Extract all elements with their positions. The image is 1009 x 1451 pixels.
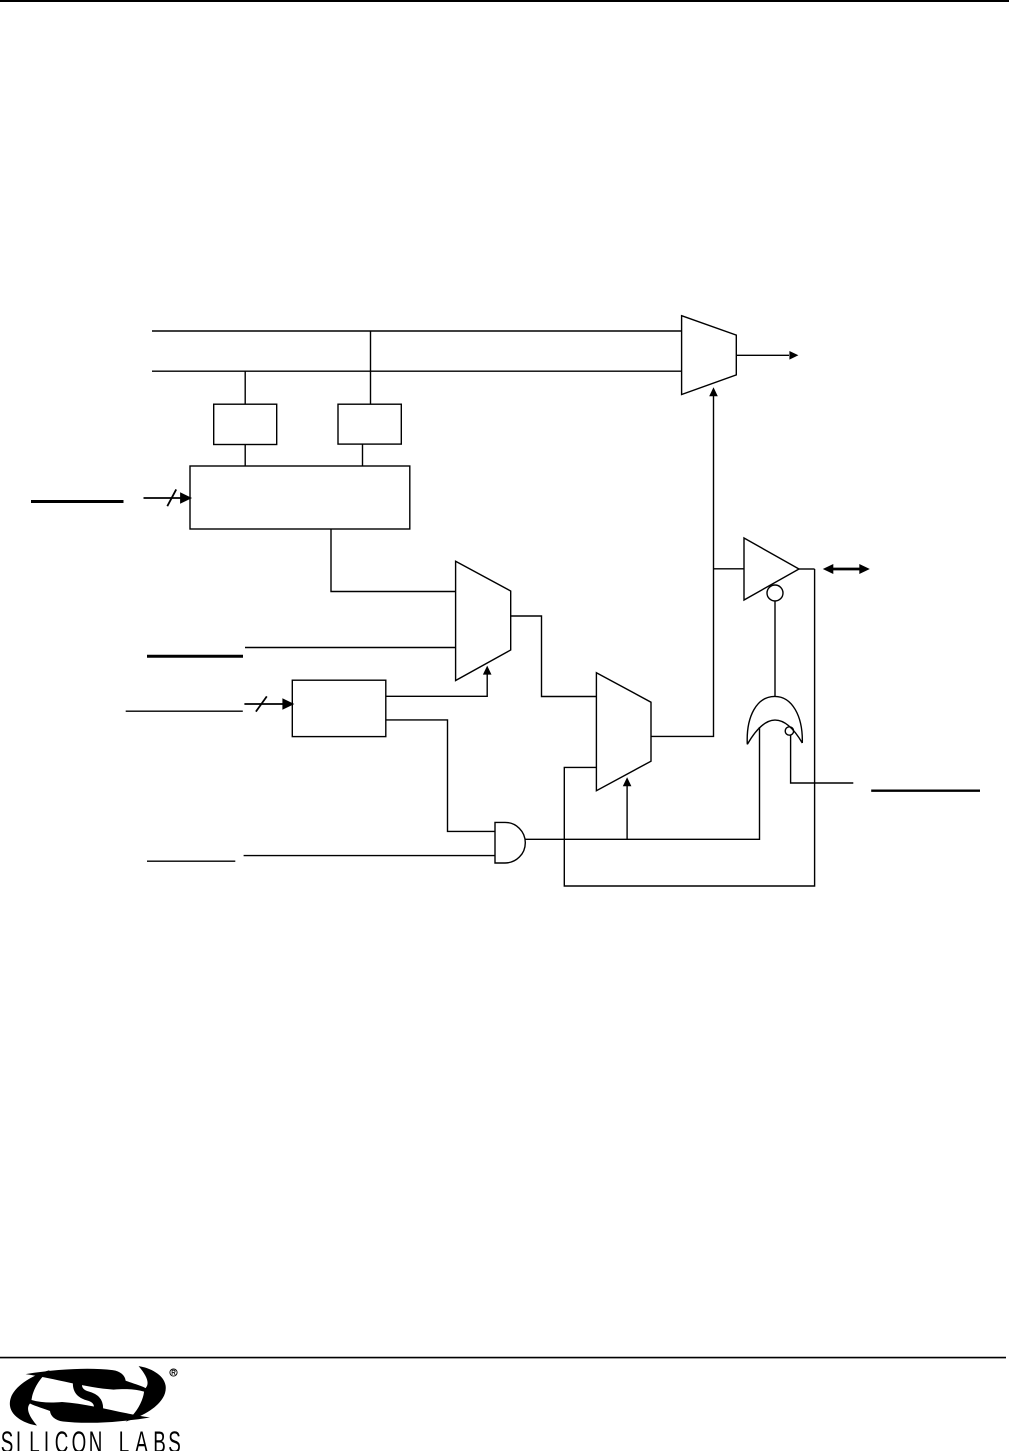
arrowhead M3 output <box>789 351 798 360</box>
wire M3 output <box>736 354 789 356</box>
wire B3 output to AND gate <box>386 720 495 832</box>
wire buffer output <box>799 568 815 570</box>
wire B2 to register <box>362 444 364 466</box>
svg-text:L: L <box>119 1426 129 1451</box>
wire B3 output to M1 select <box>386 668 487 696</box>
wire M2 select from AND output <box>626 780 628 839</box>
svg-text:S: S <box>168 1426 181 1451</box>
mux M3 (top) <box>682 316 737 395</box>
svg-text:I: I <box>16 1426 21 1451</box>
tri-state buffer U1 <box>744 538 799 600</box>
left comma swoosh with bottom body <box>10 1370 150 1426</box>
label line near M1 (thick) <box>147 655 243 658</box>
wire register output to mux M1 <box>331 529 456 592</box>
bidirectional port pin arrow <box>823 564 870 574</box>
svg-text:C: C <box>55 1426 69 1451</box>
or-gate G1 (pointing up) <box>747 696 802 744</box>
Silicon Labs logo swirl <box>10 1366 166 1425</box>
wire bus1 to box B2 <box>370 331 372 404</box>
arrowhead M1 select <box>483 666 492 675</box>
or-gate input bubble <box>785 727 793 735</box>
label line near B3 (thin) <box>126 710 243 712</box>
wire AND gate lower input <box>244 855 495 857</box>
footer rule <box>0 1357 1006 1359</box>
buffer enable bubble <box>767 585 783 601</box>
label line SFR bus (thick) <box>31 500 124 503</box>
wire OR output to buffer enable <box>774 601 776 696</box>
svg-text:B: B <box>153 1426 166 1451</box>
register B1 (small box left) <box>214 404 277 444</box>
register B2 (small box right) <box>338 404 401 444</box>
svg-text:L: L <box>29 1426 39 1451</box>
label line near AND (thin) <box>147 860 235 862</box>
arrowhead M2 select <box>623 777 632 786</box>
wire bus line 2 <box>152 370 682 372</box>
registered trademark <box>170 1369 177 1376</box>
svg-text:S: S <box>1 1426 14 1451</box>
arrow into register B3 with bus slash <box>244 696 292 711</box>
arrow into register REG with bus slash <box>144 489 191 506</box>
wire mux M2 output to M3 select <box>651 390 714 736</box>
svg-text:N: N <box>89 1426 103 1451</box>
header bar <box>0 0 1009 2</box>
svg-text:O: O <box>72 1426 87 1451</box>
wire pin feedback to M2 lower input <box>564 569 814 886</box>
SILICON LABS wordmark <box>1 1426 181 1451</box>
wire OR right input <box>791 735 854 783</box>
right comma swoosh with top body (180deg rotation) <box>26 1366 166 1422</box>
and-gate A1 <box>495 822 525 863</box>
wire B1 to register <box>244 445 246 467</box>
svg-text:I: I <box>44 1426 49 1451</box>
register REG (wide box) <box>190 466 410 529</box>
svg-text:A: A <box>135 1426 148 1451</box>
label line right (thick) <box>871 790 980 792</box>
wire AND output <box>525 727 759 839</box>
wire buffer input tap <box>714 568 745 570</box>
center S stroke <box>77 1381 98 1411</box>
mux M1 <box>456 561 511 680</box>
wire bus2 to box B1 <box>244 371 246 404</box>
register B3 (small box) <box>292 680 386 736</box>
mux M2 <box>596 673 651 791</box>
arrowhead M3 select <box>709 387 718 396</box>
wire bus line 1 <box>152 330 682 332</box>
wire mux M1 output to mux M2 <box>511 616 597 697</box>
wire input to mux M1 lower <box>245 647 456 649</box>
